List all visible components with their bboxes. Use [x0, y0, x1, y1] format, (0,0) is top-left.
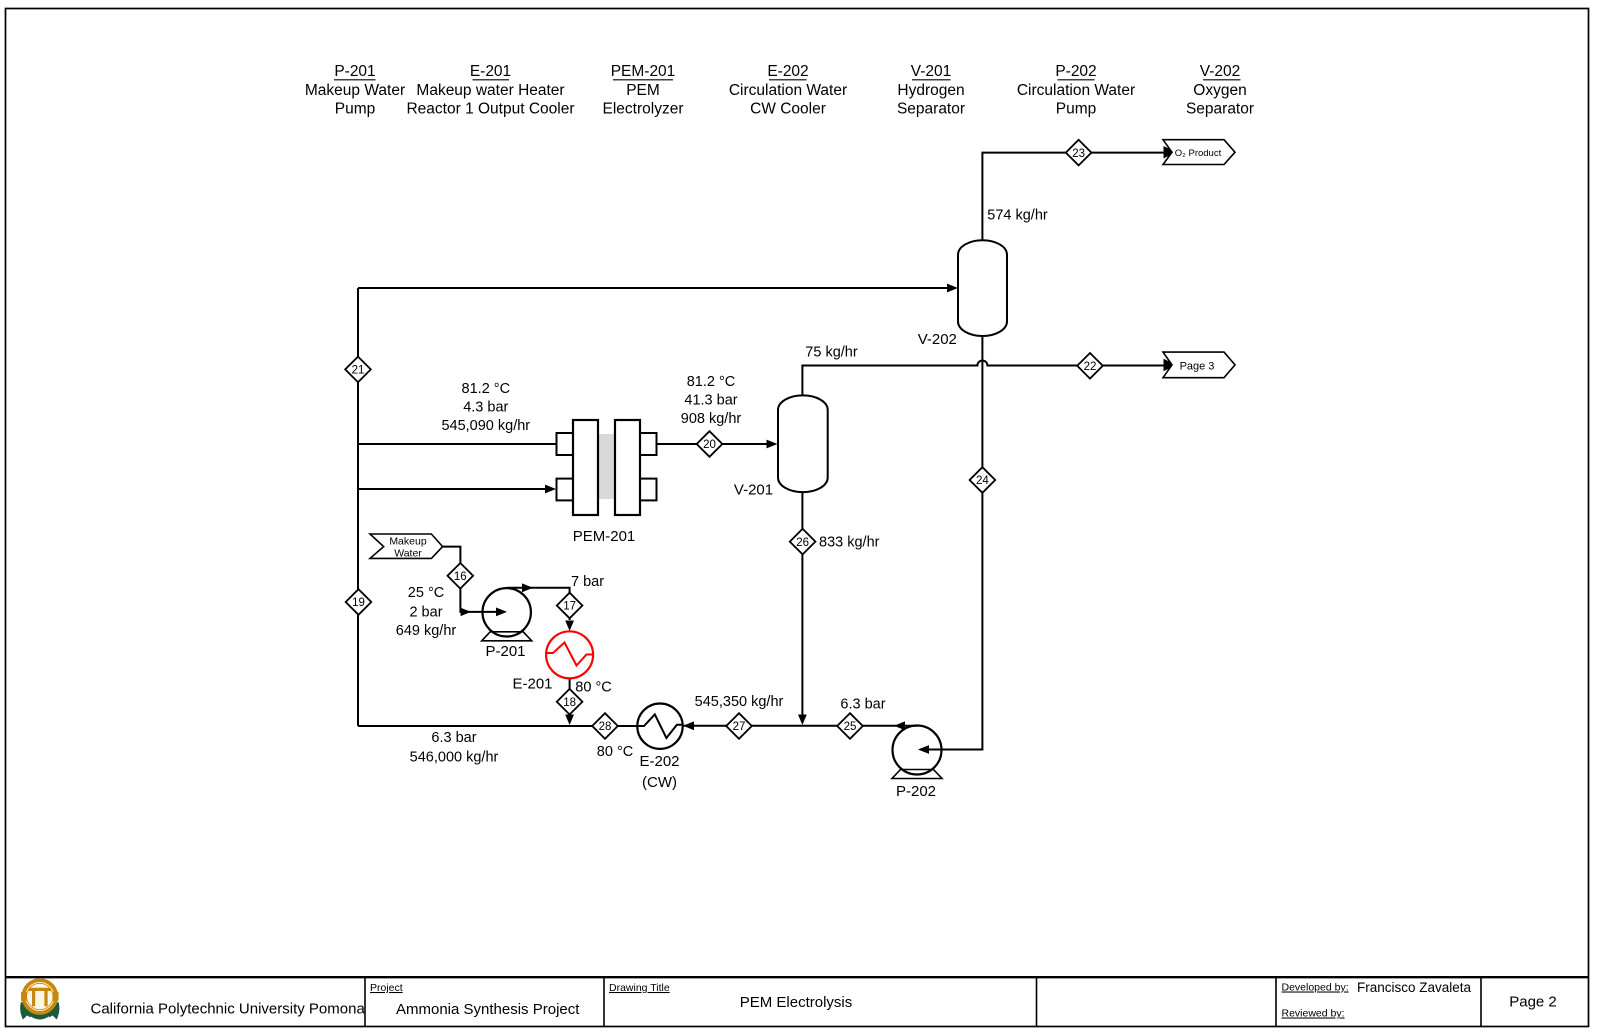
svg-text:21: 21: [352, 365, 365, 377]
wire PEM to V-201 stream 20: [656, 443, 767, 445]
node 27: [726, 713, 752, 739]
svg-text:E-202: E-202: [639, 753, 679, 770]
wire left vertical main: [357, 288, 359, 726]
header V-202: [1186, 63, 1254, 118]
heat exchanger E-202: [637, 704, 682, 749]
arrow E-201 outlet into bottom line: [565, 715, 574, 726]
wire V-202 top to O2 flag: [982, 153, 1164, 241]
flag O2 Product: [1163, 140, 1235, 165]
svg-text:V-202: V-202: [1200, 63, 1241, 80]
svg-text:Reactor 1 Output Cooler: Reactor 1 Output Cooler: [406, 101, 574, 118]
arrow into V-202 left: [947, 284, 958, 293]
svg-text:80 °C: 80 °C: [575, 680, 611, 696]
wire V-201 bottom downcomer: [801, 492, 803, 715]
svg-text:PEM Electrolysis: PEM Electrolysis: [740, 994, 853, 1011]
svg-text:649 kg/hr: 649 kg/hr: [396, 623, 457, 639]
svg-text:23: 23: [1072, 148, 1085, 160]
wire top feed to V-202: [358, 287, 948, 289]
header PEM-201: [603, 63, 684, 118]
flag Page 3: [1163, 352, 1235, 378]
logo Cal Poly Pomona seal: [20, 980, 59, 1019]
arrow V-201 downcomer into bottom line: [798, 715, 807, 726]
svg-text:4.3 bar: 4.3 bar: [463, 400, 508, 416]
svg-text:18: 18: [563, 697, 576, 709]
wire bottom main y726: [358, 725, 638, 727]
svg-text:Electrolyzer: Electrolyzer: [603, 101, 684, 118]
arrow makeup corner: [461, 608, 471, 616]
svg-text:P-201: P-201: [334, 63, 375, 80]
arrow into V-201 left: [767, 440, 778, 449]
svg-text:P-202: P-202: [896, 783, 936, 800]
svg-text:545,090 kg/hr: 545,090 kg/hr: [441, 418, 530, 434]
svg-text:545,350 kg/hr: 545,350 kg/hr: [695, 694, 784, 710]
header E-201: [406, 63, 574, 118]
wire V-201 top to Page3 with hop: [802, 361, 1164, 396]
heat exchanger E-201 (red): [546, 631, 593, 678]
pump P-201: [482, 588, 532, 641]
pump P-202: [892, 726, 942, 779]
header P-202: [1017, 63, 1135, 118]
svg-text:833 kg/hr: 833 kg/hr: [819, 535, 880, 551]
svg-text:Separator: Separator: [897, 101, 965, 118]
svg-text:908 kg/hr: 908 kg/hr: [681, 411, 742, 427]
svg-text:Pump: Pump: [335, 101, 376, 118]
header P-201: [305, 63, 405, 118]
svg-text:Circulation Water: Circulation Water: [1017, 82, 1135, 99]
svg-text:O₂ Product: O₂ Product: [1175, 148, 1222, 159]
svg-text:24: 24: [976, 475, 989, 487]
node 21: [345, 357, 371, 383]
svg-text:V-201: V-201: [911, 63, 952, 80]
svg-text:Water: Water: [394, 548, 422, 560]
wire PEM upper feed y444: [358, 443, 557, 445]
svg-text:Makeup: Makeup: [389, 536, 427, 548]
svg-text:16: 16: [454, 571, 467, 583]
header E-202: [729, 63, 847, 118]
svg-text:Project: Project: [370, 982, 403, 994]
svg-text:V-201: V-201: [734, 482, 773, 499]
arrow into P-201 center: [496, 608, 507, 617]
svg-text:Makeup Water: Makeup Water: [305, 82, 405, 99]
arrow into PEM lower nozzle: [545, 485, 556, 494]
wire makeup flag to P-201: [443, 547, 496, 612]
node 23: [1066, 140, 1092, 166]
arrow into E-201 top: [565, 621, 574, 632]
svg-text:Circulation Water: Circulation Water: [729, 82, 847, 99]
svg-text:Separator: Separator: [1186, 101, 1254, 118]
svg-text:25 °C: 25 °C: [408, 585, 444, 601]
svg-text:6.3 bar: 6.3 bar: [840, 697, 885, 713]
svg-text:V-202: V-202: [918, 331, 957, 348]
title block text: [91, 980, 1557, 1020]
node 18: [557, 689, 583, 715]
svg-text:Page 2: Page 2: [1509, 994, 1557, 1011]
svg-text:CW Cooler: CW Cooler: [750, 101, 826, 118]
HEADERS: [305, 63, 1254, 118]
arrow into O2 flag: [1164, 146, 1177, 158]
arrow into P-202 center: [918, 745, 929, 754]
header V-201: [897, 63, 965, 118]
svg-text:Makeup water Heater: Makeup water Heater: [416, 82, 564, 99]
svg-text:20: 20: [703, 439, 716, 451]
node 24: [970, 467, 996, 493]
electrolyzer PEM-201: [557, 420, 657, 515]
wire V-202 bottom to P-202: [928, 336, 982, 750]
node 20: [697, 431, 723, 457]
wire E-202 right to P-202 top: [683, 725, 917, 727]
svg-text:81.2 °C: 81.2 °C: [687, 374, 736, 390]
svg-text:Hydrogen: Hydrogen: [897, 82, 964, 99]
flag Makeup Water: [370, 534, 443, 560]
svg-text:2 bar: 2 bar: [409, 605, 442, 621]
svg-text:PEM: PEM: [626, 82, 660, 99]
arrow into E-202 right: [683, 721, 694, 730]
svg-text:E-202: E-202: [767, 63, 808, 80]
svg-text:E-201: E-201: [470, 63, 511, 80]
svg-text:546,000 kg/hr: 546,000 kg/hr: [410, 750, 499, 766]
TITLE BLOCK: [6, 977, 1589, 1026]
svg-text:P-202: P-202: [1055, 63, 1096, 80]
node 28: [592, 713, 618, 739]
svg-text:Ammonia Synthesis Project: Ammonia Synthesis Project: [396, 1001, 580, 1018]
node 25: [837, 713, 863, 739]
node 22: [1077, 353, 1103, 379]
arrow P-202 discharge: [894, 721, 905, 730]
node 17: [557, 593, 583, 619]
svg-text:81.2 °C: 81.2 °C: [462, 381, 511, 397]
node 16: [448, 563, 474, 589]
wire PEM lower feed y489: [358, 488, 546, 490]
svg-text:Developed by:: Developed by:: [1282, 982, 1349, 994]
svg-text:Page 3: Page 3: [1180, 361, 1215, 373]
svg-text:PEM-201: PEM-201: [611, 63, 676, 80]
svg-text:41.3 bar: 41.3 bar: [684, 393, 737, 409]
wire P-201 discharge to E-201: [507, 588, 570, 620]
arrow into Page3 flag: [1164, 359, 1177, 371]
svg-text:28: 28: [599, 721, 612, 733]
DIAMONDS: [345, 140, 1103, 739]
svg-text:P-201: P-201: [485, 643, 525, 660]
node 19: [346, 589, 372, 615]
svg-text:E-201: E-201: [512, 676, 552, 693]
svg-text:19: 19: [352, 597, 365, 609]
svg-text:(CW): (CW): [642, 774, 677, 791]
svg-text:26: 26: [796, 537, 809, 549]
ARROWHEADS: [461, 146, 1177, 754]
svg-text:7 bar: 7 bar: [571, 574, 604, 590]
svg-text:27: 27: [733, 721, 746, 733]
svg-text:22: 22: [1084, 361, 1097, 373]
arrow P-201 discharge: [522, 583, 533, 592]
svg-text:California Polytechnic Univers: California Polytechnic University Pomona: [91, 1001, 366, 1018]
svg-text:75 kg/hr: 75 kg/hr: [805, 345, 858, 361]
svg-text:25: 25: [844, 721, 857, 733]
svg-text:80 °C: 80 °C: [597, 744, 633, 760]
svg-text:574 kg/hr: 574 kg/hr: [987, 208, 1048, 224]
svg-text:Francisco Zavaleta: Francisco Zavaleta: [1357, 980, 1472, 995]
vessel V-201: [778, 395, 828, 492]
svg-text:Oxygen: Oxygen: [1193, 82, 1246, 99]
svg-text:6.3 bar: 6.3 bar: [431, 730, 476, 746]
svg-text:Drawing Title: Drawing Title: [609, 982, 670, 994]
node 26: [790, 529, 816, 555]
svg-text:Pump: Pump: [1056, 101, 1097, 118]
svg-text:PEM-201: PEM-201: [573, 528, 636, 545]
svg-text:Reviewed by:: Reviewed by:: [1282, 1008, 1345, 1020]
svg-text:17: 17: [563, 601, 576, 613]
wire E-201 to bottom line: [569, 678, 571, 715]
LABELS: [396, 208, 1048, 801]
vessel V-202: [958, 240, 1007, 336]
